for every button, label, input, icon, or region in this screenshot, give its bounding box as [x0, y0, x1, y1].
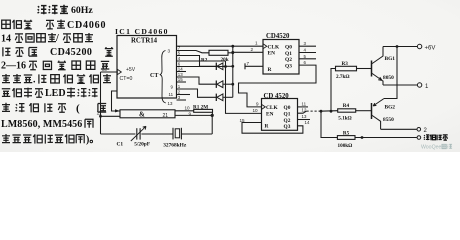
label &amp; in sub-box [139, 110, 145, 118]
wire Q1 to dashed tap [298, 111, 307, 113]
svg-text:Q2: Q2 [285, 57, 292, 63]
svg-text:R: R [268, 67, 272, 73]
wire bottom oscillator line [101, 133, 136, 135]
resistor R2 [209, 50, 228, 55]
diode D2 [216, 81, 223, 88]
transistor BG1 8050 (NPN) [372, 47, 384, 86]
label 8050 [383, 75, 394, 81]
wire Q-bus stub y66.5 to V1 [177, 66, 226, 68]
svg-text:RCTR14: RCTR14 [131, 38, 158, 45]
label Q3 upper [285, 63, 292, 69]
label 5.1k [338, 115, 352, 121]
label 2 [424, 128, 428, 134]
wire bottom oscillator line right of C1 [141, 133, 172, 135]
resistor R3 [336, 66, 357, 71]
wire left rail vertical [100, 72, 102, 134]
pin number 12 [102, 66, 108, 72]
svg-text:BG2: BG2 [385, 105, 396, 111]
wire node column V2 [232, 46, 234, 97]
svg-text:12: 12 [102, 66, 108, 72]
wire node column V1 to EN of CD4520#2 [226, 61, 262, 113]
counter U2 body: CD4520 upper box [263, 40, 299, 75]
internal weight number 11 [169, 92, 174, 97]
resistor R4 [338, 109, 356, 112]
wire sub-box pin10 to R1 [175, 110, 194, 112]
svg-text:8050: 8050 [383, 75, 394, 81]
pin number 15 lower [240, 118, 246, 123]
wire Q-bus stub y98 [177, 99, 187, 101]
wire D1 anode to V2 [223, 65, 233, 67]
label Q2 upper [285, 57, 292, 63]
label R5 [343, 130, 350, 136]
terminal clock output [417, 136, 421, 140]
svg-text:R4: R4 [343, 103, 350, 109]
svg-text:Q0: Q0 [284, 105, 291, 111]
junction V2/EN [231, 51, 234, 54]
wire Q-bus stub y88 to D3 [177, 89, 217, 97]
label 20k [221, 57, 229, 63]
junction at left rail [99, 115, 102, 118]
label Q0 upper [285, 45, 292, 51]
wire Q0 stub lower [298, 106, 309, 108]
pin number 10 lower [253, 108, 259, 113]
svg-text:CT: CT [150, 73, 158, 79]
terminal 1 [417, 83, 421, 87]
svg-text:20k: 20k [221, 57, 229, 63]
svg-text:C1: C1 [117, 142, 124, 148]
svg-text:WooQee: WooQee [421, 144, 441, 150]
label 32768kHz [163, 143, 187, 149]
pin 12 clock marker [117, 69, 121, 74]
wire Q2 stub upper [299, 58, 316, 60]
junction V2/R2 [231, 51, 234, 54]
label Q2 lower [284, 118, 291, 124]
label 8550 [383, 117, 394, 123]
wire D3 anode to V2 [223, 96, 233, 98]
svg-text:11: 11 [302, 101, 307, 106]
svg-text:21: 21 [163, 113, 169, 119]
svg-text:(: ( [76, 102, 80, 114]
svg-text:9: 9 [256, 102, 259, 107]
pin number 10 [185, 106, 191, 111]
svg-text:10: 10 [185, 106, 191, 111]
svg-text:R2: R2 [201, 58, 208, 64]
IC label CD 4520 (lower) [264, 93, 290, 100]
label 21 in sub-box [163, 113, 169, 119]
wire Q-bus stub y77 to D2 [177, 77, 217, 84]
svg-text:IC1 CD4060: IC1 CD4060 [115, 27, 169, 36]
svg-text:R3: R3 [342, 61, 349, 67]
svg-text:CLK: CLK [266, 105, 278, 111]
wire +6V rail [383, 46, 417, 48]
pin numbers 3 4 5 6 upper outputs [304, 41, 307, 65]
CT brace [160, 51, 166, 104]
junction pin9/crystal column [211, 114, 214, 117]
wire pin7 reset tie [245, 63, 263, 69]
label CT [150, 73, 158, 79]
wire Q-bus stub y55.5 to D1 [177, 56, 217, 67]
svg-text:Q2: Q2 [284, 118, 291, 124]
pin number 7 upper [247, 61, 250, 66]
wire BG1 emitter to terminal 1 [383, 84, 417, 86]
svg-text:CD4060: CD4060 [67, 20, 106, 31]
caption text block (Chinese description) [1, 5, 113, 146]
label R3 [342, 61, 349, 67]
svg-text:R5: R5 [343, 130, 350, 136]
svg-text:LED: LED [45, 88, 66, 99]
label R upper [268, 67, 272, 73]
wire sub-box pin9 [175, 114, 212, 116]
svg-text:8550: 8550 [383, 117, 394, 123]
svg-text:13: 13 [302, 114, 307, 119]
junction V2 top [231, 45, 234, 48]
svg-text:Q1: Q1 [284, 112, 291, 118]
wire R4 node down to R5 [321, 111, 337, 137]
label 2.7k [336, 74, 350, 80]
wire BG2 collector to terminal 2 [381, 128, 417, 130]
wire R4 node to R4 [320, 110, 338, 113]
pin number 9 [189, 112, 192, 117]
internal weight number 13 [168, 101, 173, 106]
junction V1/66.5 [224, 65, 227, 68]
wire D2 anode to V2 [223, 83, 233, 85]
svg-text:2: 2 [251, 47, 254, 52]
svg-text:7: 7 [247, 61, 250, 66]
junction wedge at sub-box pin 11 [115, 109, 120, 112]
CLK triangle upper [263, 44, 267, 49]
junction +6V rail [396, 45, 399, 48]
diode D1 [216, 63, 223, 70]
wire pin12 to left rail [101, 71, 118, 73]
wire crystal to column [181, 133, 212, 135]
pin number 3 (CD4060 pin3) [168, 49, 171, 54]
svg-text:14: 14 [178, 67, 183, 72]
label CLK upper [268, 45, 280, 51]
diode D3 [216, 94, 223, 101]
watermark WooQee [421, 144, 452, 150]
svg-text:)。: )。 [86, 134, 99, 145]
svg-text:CD45200: CD45200 [50, 47, 92, 58]
wire R1 right bend down [211, 112, 213, 115]
label CT=0 [120, 76, 133, 82]
label clock-circuit (时钟电路) [424, 134, 448, 140]
svg-text:14: 14 [305, 120, 310, 125]
pin numbers 11 12 13 14 lower outputs [302, 101, 310, 125]
label Q0 lower [284, 105, 291, 111]
wire Q2 stub lower [298, 119, 311, 121]
oscillator sub-box (&) [120, 110, 175, 118]
resistor R5 [337, 136, 355, 140]
svg-text:11: 11 [169, 92, 174, 97]
svg-text:15: 15 [178, 77, 183, 82]
svg-text:BG1: BG1 [385, 56, 396, 62]
svg-text:1: 1 [255, 41, 258, 46]
label +5V [126, 67, 136, 73]
wire R4 to BG2 base [356, 110, 372, 112]
terminal +6V [417, 44, 421, 48]
junction V2/D2 [231, 83, 234, 86]
wire R5 to output terminal [355, 137, 417, 139]
counter U3 body: CD4520 lower box [262, 99, 298, 131]
svg-text:5.1kΩ: 5.1kΩ [338, 115, 352, 121]
wire +6V down to BG2 emitter [384, 47, 397, 99]
wire pin11 jog into sub-box [112, 91, 121, 111]
IC label IC1 CD4060 [115, 27, 169, 36]
wire Q-bus stub y93 [177, 94, 191, 96]
CLK triangle lower [262, 104, 266, 109]
svg-text:Q3: Q3 [285, 63, 292, 69]
junction R4 node [320, 110, 323, 113]
label 100k [338, 143, 353, 149]
wire sub-box lower-left to rail [101, 115, 121, 117]
svg-text:13: 13 [168, 101, 173, 106]
label Q1 lower [284, 112, 291, 118]
label Q3 lower [284, 124, 291, 130]
wire V2 to EN of CD4520#1 [233, 51, 263, 53]
svg-text:2—16: 2—16 [1, 61, 26, 72]
wire Q0 stub upper [299, 45, 316, 47]
svg-text:3: 3 [168, 49, 171, 54]
svg-text:Q3: Q3 [284, 124, 291, 130]
terminal 2 [417, 128, 421, 132]
crystal X1 32768kHz [173, 128, 181, 140]
label EN upper [268, 51, 276, 57]
svg-text:+5V: +5V [126, 67, 136, 73]
IC label CD4520 (upper) [266, 33, 290, 40]
svg-text:&: & [139, 110, 145, 118]
label Q1 upper [285, 51, 292, 57]
wire Q-bus stub y82 [177, 81, 187, 83]
wire crystal column [211, 115, 213, 134]
wire Q-bus stub y61 to node column V1 [177, 60, 226, 62]
wire R3 to BG1 base [357, 68, 372, 70]
svg-text:5/20pF: 5/20pF [134, 142, 151, 148]
label R2 [201, 58, 208, 64]
wire Q-bus stub y50.5 to R2 [177, 51, 210, 53]
internal weight number 9 [171, 85, 174, 90]
wire Q-bus stub y71.5 [177, 71, 187, 73]
label BG1 [385, 56, 396, 62]
junction V2/D1 [231, 65, 234, 68]
label 5/20pF [134, 142, 151, 148]
pin number 2 upper [251, 47, 254, 52]
wire Q1 stub upper [299, 52, 316, 54]
label R1 2M [193, 105, 208, 111]
svg-text:EN: EN [266, 112, 274, 118]
pin number 1 upper [255, 41, 258, 46]
svg-text:100kΩ: 100kΩ [338, 143, 353, 149]
svg-text:/: / [55, 33, 59, 44]
svg-text:10: 10 [253, 108, 259, 113]
wire Q3 lower wrap to R reset [242, 123, 303, 134]
svg-text:Q0: Q0 [285, 45, 292, 51]
svg-text:+6V: +6V [425, 45, 436, 51]
wire CD4060 pin3 long line to CD4520#1 CLK [177, 45, 264, 47]
label R4 [343, 103, 350, 109]
svg-text:60Hz: 60Hz [71, 5, 93, 16]
op-amp U1 body: CD4060 main box [117, 36, 177, 99]
junction on R5 output line [361, 136, 364, 139]
transistor BG2 8550 (PNP) [372, 99, 385, 130]
wire R3 left down to R4 node [331, 69, 336, 112]
label BG2 [385, 105, 396, 111]
label RCTR14 [131, 38, 158, 45]
pin number 11 [97, 111, 102, 117]
junction R3 column at R4 line [330, 110, 333, 113]
pin numbers of CD4060 output bus [178, 46, 183, 100]
svg-text:R: R [265, 124, 269, 130]
label CLK lower [266, 105, 278, 111]
label C1 [117, 142, 124, 148]
label EN lower [266, 112, 274, 118]
svg-text:CLK: CLK [268, 45, 280, 51]
svg-text:2.7kΩ: 2.7kΩ [336, 74, 350, 80]
wire R2 to node column V2 [228, 52, 233, 54]
label 1 [425, 84, 429, 90]
label R lower [265, 124, 269, 130]
svg-text:CT=0: CT=0 [120, 76, 133, 82]
svg-text:32768kHz: 32768kHz [163, 143, 187, 149]
svg-text:EN: EN [268, 51, 276, 57]
svg-text:Q1: Q1 [285, 51, 292, 57]
svg-text:LM8560, MM5456: LM8560, MM5456 [1, 119, 82, 130]
wire dashed selection to R4 node [307, 110, 320, 112]
svg-text:14: 14 [1, 33, 11, 44]
resistor R1 [194, 109, 213, 112]
pin number 9 lower [256, 102, 259, 107]
capacitor C1 trimmer [131, 126, 146, 141]
wire Q3 upper to CLK of lower counter [239, 65, 317, 107]
label +6V [425, 45, 436, 51]
